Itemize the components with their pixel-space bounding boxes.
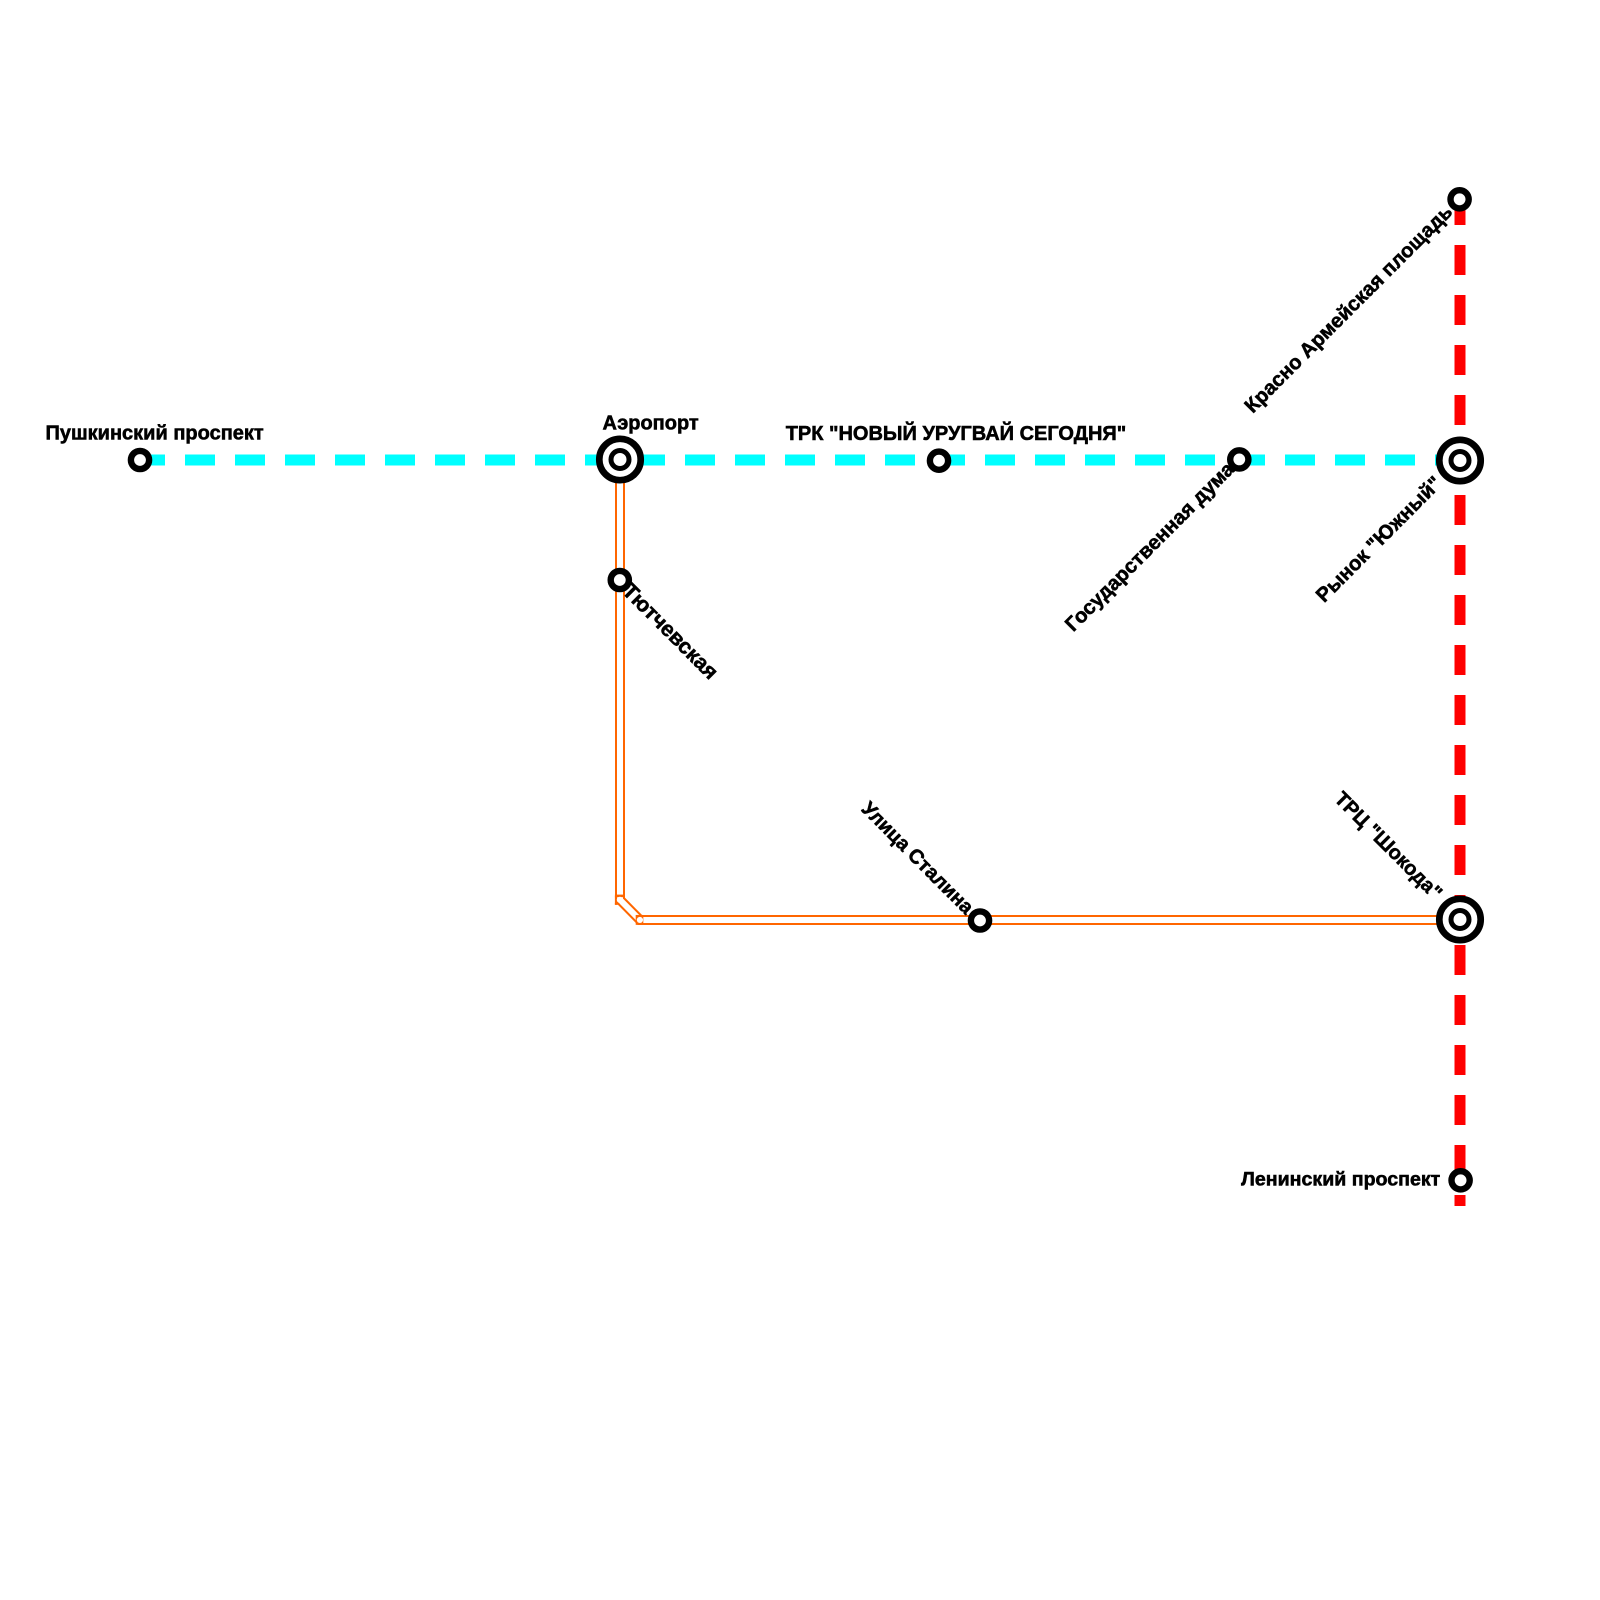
line 2 (orange double line) outer stroke: [620, 460, 1460, 920]
line 2 joint B orange block: [636, 915, 644, 925]
station Ulitsa Stalina circle: [971, 911, 989, 929]
transfer station Aeroport outer circle: [599, 439, 640, 480]
svg-text:Ленинский проспект: Ленинский проспект: [1241, 1168, 1441, 1190]
transfer station Rynok Yuzhny outer circle: [1439, 440, 1480, 481]
station Krasno Armeyskaya ploshchad circle: [1451, 190, 1469, 208]
transfer station Aeroport inner circle: [611, 451, 629, 469]
line 2 joint A bottom cap bit: [615, 903, 619, 905]
transfer station TRC Shokoda outer circle: [1439, 899, 1480, 940]
transfer station TRC Shokoda inner circle: [1451, 911, 1469, 929]
station TRK Novy Urugvay Segodnya circle: [930, 452, 948, 470]
station Leninsky prospekt circle: [1452, 1171, 1470, 1189]
line 2 joint A white node: [617, 897, 623, 903]
line 3 (red dashed vertical): [1455, 195, 1466, 1206]
station Tyutchevskaya circle: [611, 571, 629, 589]
transfer station Rynok Yuzhny inner circle: [1451, 452, 1469, 470]
line 1 (cyan dashed horizontal): [135, 455, 1461, 466]
svg-text:ТРК "НОВЫЙ УРУГВАЙ СЕГОДНЯ": ТРК "НОВЫЙ УРУГВАЙ СЕГОДНЯ": [786, 421, 1127, 445]
svg-text:Пушкинский проспект: Пушкинский проспект: [46, 423, 264, 445]
station Gosudarstvennaya duma circle: [1230, 450, 1248, 468]
line 2 white patch above joint A: [617, 887, 623, 895]
line 2 joint A left stroke extension: [615, 897, 617, 905]
line 2 joint B white node: [637, 917, 643, 923]
station Pushkinsky prospekt circle: [131, 451, 149, 469]
line 2 joint A cap band: [615, 895, 625, 898]
svg-text:Аэропорт: Аэропорт: [603, 413, 699, 435]
line 2 inner white stroke: [620, 460, 1460, 920]
